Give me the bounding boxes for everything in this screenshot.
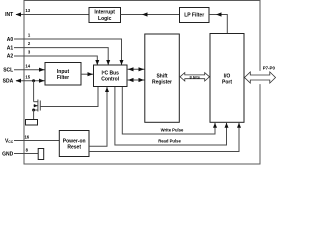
arrowhead SCL into input filter (points right): [39, 68, 45, 72]
svg-text:GND: GND: [2, 151, 14, 157]
svg-text:A2: A2: [7, 54, 14, 60]
svg-text:SCL: SCL: [3, 67, 13, 73]
svg-text:15: 15: [25, 74, 30, 79]
box I2C Bus Control U1: [94, 65, 128, 87]
wire read pulse: [115, 87, 227, 145]
svg-text:I/O: I/O: [224, 74, 231, 80]
arrowhead read pulse into I/O port (points up): [225, 123, 229, 128]
wire Vcc to power-on reset: [14, 140, 59, 142]
svg-text:Reset: Reset: [67, 145, 81, 151]
box Interrupt Logic: [89, 8, 121, 23]
svg-text:Write Pulse: Write Pulse: [161, 127, 184, 132]
wire power-on reset to bus control: [89, 87, 107, 146]
svg-text:LP Filter: LP Filter: [184, 12, 204, 18]
wire bus control / shift register lower link: [127, 79, 145, 81]
arrowhead right: [139, 78, 145, 82]
wire A0: [14, 39, 122, 65]
arrowhead transistor body (points right): [34, 104, 38, 107]
arrowhead SDA out (points left): [16, 79, 22, 83]
svg-text:Control: Control: [101, 77, 119, 83]
svg-text:Port: Port: [222, 80, 232, 86]
wire LP filter to interrupt logic: [121, 14, 180, 16]
box Shift Register: [145, 34, 180, 122]
svg-text:I²C Bus: I²C Bus: [101, 71, 119, 77]
chip outer boundary box: [24, 1, 260, 165]
wire SDA drain drop: [33, 81, 35, 102]
arrowhead (points left, mid wire): [142, 12, 148, 16]
arrowhead into I/O port bottom (points up): [237, 123, 241, 128]
wire transistor gate lead: [40, 87, 98, 107]
svg-text:A0: A0: [7, 37, 14, 43]
junction dot transistor source: [32, 109, 35, 112]
wire SCL: [14, 69, 45, 71]
arrowhead left: [128, 67, 134, 71]
arrowhead right: [139, 67, 145, 71]
arrowhead (points left, mid wire): [216, 12, 222, 16]
svg-text:14: 14: [25, 63, 30, 68]
wire input filter to bus control: [81, 73, 94, 75]
bus arrow to P7-P0 (hollow double arrow across border): [245, 72, 276, 83]
arrowhead A0 into I2C bus control (points down): [120, 60, 124, 65]
svg-text:VCC: VCC: [5, 138, 14, 144]
wire A1: [14, 48, 108, 65]
wire transistor source to ground pad: [33, 110, 35, 120]
wire bus control / shift register upper link: [127, 68, 145, 70]
svg-text:A1: A1: [7, 45, 14, 51]
wire A2: [14, 56, 97, 65]
arrowhead SDA into input filter (points right): [39, 79, 45, 83]
wire write pulse: [122, 87, 215, 134]
box Power-on Reset: [59, 131, 89, 157]
box Input Filter: [45, 63, 81, 86]
svg-text:Shift: Shift: [156, 74, 167, 80]
box I/O Port: [210, 34, 244, 123]
svg-text:Register: Register: [152, 80, 172, 86]
wire SDA: [16, 80, 45, 82]
arrowhead into bus control bottom (points up): [105, 87, 109, 92]
svg-text:Power-on: Power-on: [63, 139, 86, 145]
arrowhead INT (points left): [16, 12, 22, 16]
ground pad box GND pin: [38, 149, 44, 160]
svg-text:13: 13: [25, 8, 30, 13]
ground pad box: [26, 120, 38, 126]
svg-text:8 bits: 8 bits: [189, 74, 200, 79]
transistor Q1 open-drain output: [34, 100, 41, 112]
svg-text:Logic: Logic: [98, 16, 112, 22]
arrowhead A1 (points down): [106, 60, 110, 65]
wire GND: [14, 153, 38, 155]
bus arrow 8 bits (hollow double arrow): [180, 73, 210, 81]
arrowhead left: [128, 78, 134, 82]
wire INT line: [16, 14, 89, 16]
svg-text:INT: INT: [5, 12, 13, 18]
junction dot on SDA: [32, 79, 35, 82]
border gap behind P7-P0 arrow: [258, 71, 262, 84]
svg-text:Read Pulse: Read Pulse: [158, 138, 181, 143]
svg-text:SDA: SDA: [3, 78, 14, 84]
svg-text:P7-P0: P7-P0: [263, 65, 276, 70]
arrowhead write pulse into I/O port (points up): [213, 123, 217, 128]
wire power-on reset to I/O port: [89, 123, 239, 152]
svg-text:16: 16: [24, 134, 29, 139]
box LP Filter: [180, 8, 210, 23]
wire I/O port to LP filter: [209, 15, 227, 34]
svg-text:Interrupt: Interrupt: [94, 10, 115, 16]
svg-text:Filter: Filter: [57, 75, 69, 81]
arrowhead A2 (points down): [95, 60, 99, 65]
arrowhead (points right): [88, 72, 94, 76]
svg-text:Input: Input: [57, 69, 70, 75]
